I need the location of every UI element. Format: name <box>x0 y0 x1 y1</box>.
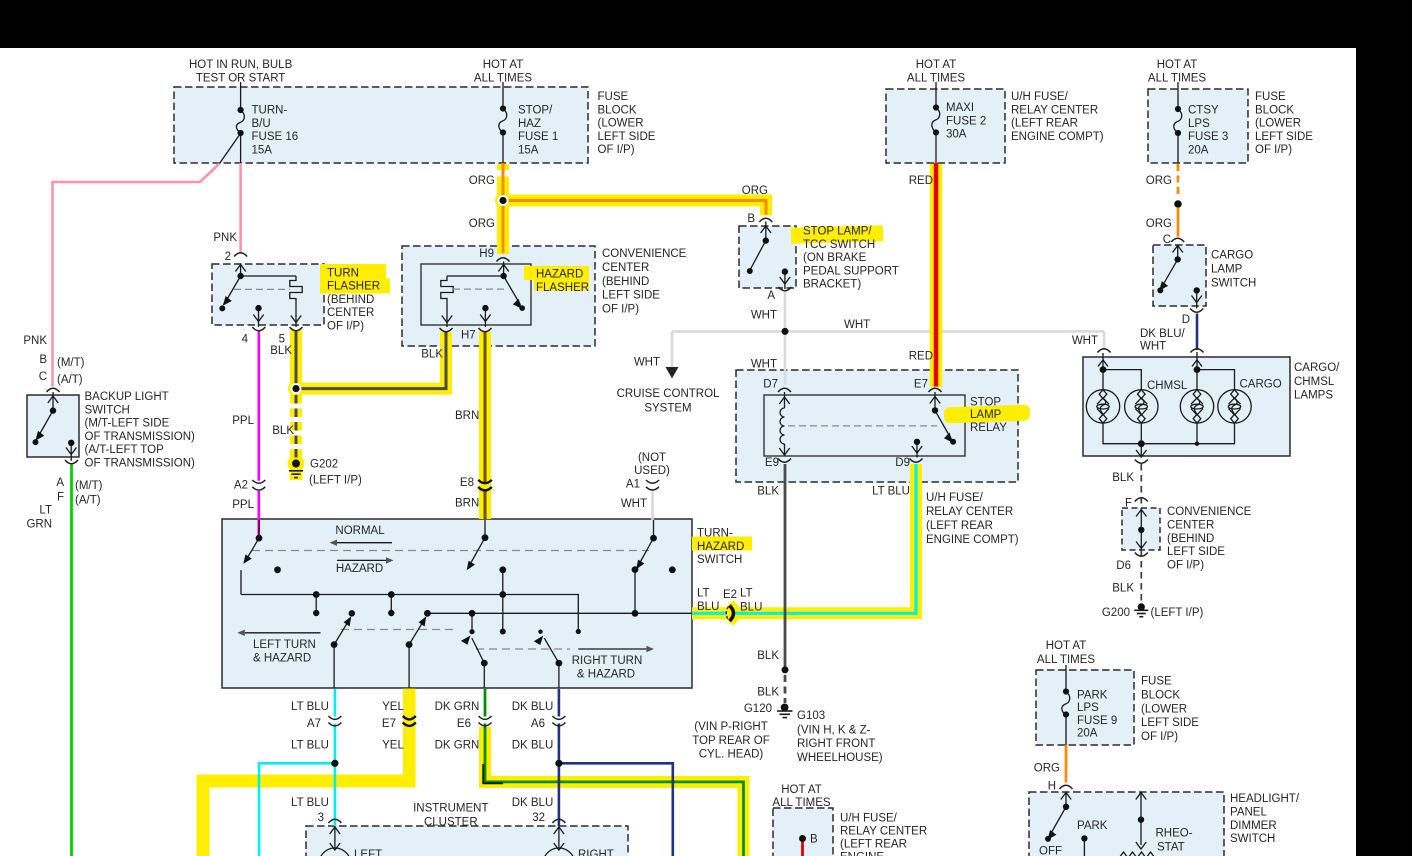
cargo/chmsl lamps internal wiring <box>1098 352 1235 457</box>
svg-text:20A: 20A <box>1188 145 1209 157</box>
svg-text:DK BLU: DK BLU <box>512 701 554 713</box>
wire WHT to chmsl lamps <box>1103 331 1106 350</box>
wire BLK dashed junction to G202 <box>295 395 298 459</box>
cargo lamp switch internals <box>1161 245 1202 309</box>
wire LT BLU relay D9 down and left to E2 <box>736 464 917 613</box>
svg-text:E2: E2 <box>723 589 737 601</box>
svg-text:ALL TIMES: ALL TIMES <box>1148 72 1206 84</box>
svg-text:PANEL: PANEL <box>1230 807 1267 819</box>
svg-text:PEDAL SUPPORT: PEDAL SUPPORT <box>803 265 899 277</box>
fuse terminal dots <box>238 107 244 113</box>
svg-text:(BEHIND: (BEHIND <box>327 294 374 306</box>
svg-text:CYL. HEAD): CYL. HEAD) <box>699 749 764 761</box>
svg-text:RIGHT: RIGHT <box>578 849 614 856</box>
svg-text:CLUSTER: CLUSTER <box>424 817 478 829</box>
cargo/chmsl lamps box <box>1083 357 1290 456</box>
wire BLK dashed to G120 <box>784 675 787 703</box>
svg-text:TCC SWITCH: TCC SWITCH <box>803 239 875 251</box>
wire LT BLU switch A7 down to cluster <box>334 689 337 717</box>
svg-text:D9: D9 <box>895 457 910 469</box>
svg-text:ALL TIMES: ALL TIMES <box>1037 654 1095 666</box>
bulb CARGO 2 <box>1218 390 1251 423</box>
G120 ground <box>781 704 789 712</box>
connector E7 arcs (YEL, bold) <box>403 716 416 719</box>
svg-text:(LOWER: (LOWER <box>1255 118 1301 130</box>
svg-text:E8: E8 <box>460 477 474 489</box>
svg-text:OFF: OFF <box>1039 845 1062 856</box>
svg-text:HEADLIGHT/: HEADLIGHT/ <box>1230 793 1300 805</box>
svg-text:CONVENIENCE: CONVENIENCE <box>1167 506 1252 518</box>
svg-text:OF I/P): OF I/P) <box>327 321 364 333</box>
connector 32 arc (cluster) <box>552 819 565 823</box>
svg-text:FUSE 3: FUSE 3 <box>1188 131 1228 143</box>
wire BLK dashed convenience center D6 to G200 <box>1140 550 1142 603</box>
svg-text:LEFT SIDE: LEFT SIDE <box>602 290 660 302</box>
svg-text:FUSE: FUSE <box>598 91 629 103</box>
stop lamp / TCC switch box <box>739 226 796 288</box>
svg-text:LEFT SIDE: LEFT SIDE <box>1167 546 1225 558</box>
svg-text:DK GRN: DK GRN <box>435 740 480 752</box>
connector H arc (dimmer switch) <box>1060 785 1073 789</box>
svg-text:U/H FUSE/: U/H FUSE/ <box>840 813 898 825</box>
cargo lamp switch box <box>1153 245 1206 306</box>
highlight LT BLU D9 to E2 to switch <box>692 464 916 613</box>
svg-text:BLU: BLU <box>740 601 762 613</box>
wire WHT to cruise control system <box>671 331 674 367</box>
svg-text:ORG: ORG <box>1034 763 1060 775</box>
svg-text:E6: E6 <box>457 718 471 730</box>
fuse PARK LPS FUSE 9 <box>1065 665 1067 692</box>
svg-text:WHT: WHT <box>751 309 777 321</box>
connector F arc <box>1135 498 1148 502</box>
text highlight HAZARD (turn-hazard switch) <box>692 537 752 551</box>
highlight ORG horizontal to stop/TCC B <box>497 201 766 216</box>
svg-text:ORG: ORG <box>742 185 768 197</box>
stop lamp relay internals <box>779 392 951 458</box>
svg-text:LPS: LPS <box>1188 118 1210 130</box>
svg-text:E7: E7 <box>382 718 396 730</box>
connector A2 arcs <box>252 480 265 483</box>
svg-text:A6: A6 <box>531 718 545 730</box>
svg-text:FUSE: FUSE <box>1255 91 1286 103</box>
svg-text:RIGHT FRONT: RIGHT FRONT <box>797 738 875 750</box>
svg-text:WHEELHOUSE): WHEELHOUSE) <box>797 752 883 764</box>
svg-text:A2: A2 <box>234 479 248 491</box>
text highlight LAMP (stop lamp relay) <box>944 405 1031 424</box>
svg-text:H7: H7 <box>461 330 476 342</box>
svg-text:CONVENIENCE: CONVENIENCE <box>602 248 687 260</box>
LT BLU arm <box>334 619 350 645</box>
svg-text:BRN: BRN <box>455 498 479 510</box>
svg-text:DK GRN: DK GRN <box>435 701 480 713</box>
instrument cluster internals <box>319 826 575 856</box>
svg-text:RELAY: RELAY <box>970 422 1007 434</box>
turn-hazard switch box <box>222 519 692 688</box>
svg-text:RELAY CENTER: RELAY CENTER <box>1011 104 1098 116</box>
svg-text:H9: H9 <box>479 248 494 260</box>
YELLOW HIGHLIGHT BANDS <box>203 164 936 856</box>
svg-text:YEL: YEL <box>382 740 404 752</box>
svg-text:BLK: BLK <box>272 425 294 437</box>
svg-text:TOP REAR OF: TOP REAR OF <box>692 735 770 747</box>
connector pin 5 arc <box>290 327 303 331</box>
svg-text:BLK: BLK <box>757 650 779 662</box>
wire DK BLU switch A6 down to cluster <box>558 689 561 717</box>
svg-text:(A/T): (A/T) <box>57 374 83 386</box>
svg-text:B: B <box>39 354 47 366</box>
connector C arc (cargo switch) <box>1171 238 1184 242</box>
connector E6 arcs <box>479 716 492 719</box>
node ORG dashed junction <box>1174 200 1182 208</box>
svg-text:PARK: PARK <box>1077 690 1108 702</box>
svg-text:BLK: BLK <box>1112 583 1134 595</box>
wire ORG park fuse9 to dimmer H <box>1065 745 1068 783</box>
svg-text:2: 2 <box>225 251 231 263</box>
svg-text:E9: E9 <box>765 457 779 469</box>
svg-text:TURN-: TURN- <box>252 105 288 117</box>
svg-text:D7: D7 <box>763 378 778 390</box>
svg-text:F: F <box>57 492 64 504</box>
wire PPL turn flasher 4 to A2 to switch <box>257 331 260 481</box>
svg-text:FLASHER: FLASHER <box>327 281 380 293</box>
svg-text:ORG: ORG <box>469 175 495 187</box>
svg-text:WHT: WHT <box>751 359 777 371</box>
svg-text:FUSE 9: FUSE 9 <box>1077 715 1117 727</box>
connector A/F arc (backup light switch) <box>65 460 78 464</box>
svg-text:BRN: BRN <box>455 410 479 422</box>
svg-text:B: B <box>747 213 755 225</box>
svg-text:ENGINE COMPT): ENGINE COMPT) <box>926 534 1019 546</box>
svg-text:OF TRANSMISSION): OF TRANSMISSION) <box>85 431 195 443</box>
svg-text:(M/T-LEFT SIDE: (M/T-LEFT SIDE <box>85 418 170 430</box>
G200 ground <box>1138 603 1145 610</box>
svg-text:(BEHIND: (BEHIND <box>1167 533 1214 545</box>
svg-text:HOT AT: HOT AT <box>483 59 523 71</box>
svg-text:G202: G202 <box>310 458 338 470</box>
svg-text:OF TRANSMISSION): OF TRANSMISSION) <box>85 458 195 470</box>
svg-text:HAZARD: HAZARD <box>336 563 383 575</box>
svg-text:LT BLU: LT BLU <box>291 701 329 713</box>
svg-text:PPL: PPL <box>232 415 254 427</box>
svg-text:3: 3 <box>318 812 324 824</box>
backup light switch internals <box>37 392 77 461</box>
headlight/panel dimmer switch internals <box>1050 792 1156 856</box>
top black bar <box>0 0 1412 48</box>
node DK BLU junction <box>555 760 562 767</box>
svg-text:G103: G103 <box>797 710 825 722</box>
bulb CHMSL 1 <box>1086 390 1119 423</box>
svg-text:E7: E7 <box>914 378 928 390</box>
svg-text:DIMMER: DIMMER <box>1230 820 1277 832</box>
connector A1 arcs <box>646 480 659 483</box>
turn flasher box <box>212 264 324 325</box>
connector B arc (stop/TCC) <box>759 218 772 222</box>
wire DK BLU branch right down <box>559 763 673 856</box>
node LT BLU junction <box>331 760 338 767</box>
svg-text:OF I/P): OF I/P) <box>598 144 635 156</box>
svg-text:20A: 20A <box>1077 728 1098 740</box>
stop lamp relay box <box>736 370 1018 482</box>
wire RED maxi fuse2 to relay E7 <box>934 163 939 387</box>
svg-text:LEFT SIDE: LEFT SIDE <box>1141 717 1199 729</box>
svg-text:STOP: STOP <box>970 396 1001 408</box>
svg-text:STOP/: STOP/ <box>518 105 553 117</box>
svg-text:TURN: TURN <box>327 267 359 279</box>
connector D9 arc <box>910 459 923 463</box>
connector arc DK BLU into lamps <box>1191 349 1204 353</box>
svg-text:(LEFT I/P): (LEFT I/P) <box>1151 607 1204 619</box>
text highlight HAZARD FLASHER <box>524 266 589 280</box>
connector E9 arc <box>778 459 791 463</box>
wire PNK fuse16 to backup light switch <box>53 164 220 387</box>
svg-text:DK BLU: DK BLU <box>512 797 554 809</box>
connector E7 arc (relay) <box>929 388 942 392</box>
right black bar <box>1356 0 1412 856</box>
svg-text:C: C <box>39 371 47 383</box>
svg-text:G120: G120 <box>744 703 772 715</box>
svg-text:RED: RED <box>909 351 933 363</box>
wire BLK relay E9 down <box>784 464 787 670</box>
node BLK junction <box>782 666 789 673</box>
PPL switch arm <box>258 520 260 538</box>
svg-text:YEL: YEL <box>382 701 404 713</box>
svg-text:LEFT SIDE: LEFT SIDE <box>598 131 656 143</box>
svg-text:CTSY: CTSY <box>1188 105 1219 117</box>
svg-text:30A: 30A <box>946 129 967 141</box>
bus1 wire <box>241 595 578 632</box>
bulb CARGO 1 <box>1180 390 1213 423</box>
bulb CHMSL 2 <box>1125 390 1158 423</box>
svg-text:WHT: WHT <box>621 498 647 510</box>
stop lamp/TCC switch internals <box>751 222 791 290</box>
svg-text:OF I/P): OF I/P) <box>1167 559 1204 571</box>
highlight DK GRN E6 down-right-down <box>485 727 744 856</box>
highlight YEL wire E7 down-left-down <box>403 689 416 788</box>
turn-hazard switch internals <box>241 520 692 688</box>
highlight RED maxi fuse to E7 <box>930 164 943 387</box>
headlight/panel dimmer switch box <box>1029 792 1224 856</box>
svg-text:SYSTEM: SYSTEM <box>644 403 691 415</box>
svg-text:ALL TIMES: ALL TIMES <box>474 72 532 84</box>
svg-text:WHT: WHT <box>844 319 870 331</box>
connector A6 arcs <box>552 716 565 719</box>
svg-text:5: 5 <box>279 334 285 346</box>
svg-text:(VIN H, K & Z-: (VIN H, K & Z- <box>797 724 871 736</box>
svg-text:BLK: BLK <box>1112 472 1134 484</box>
connector D7 arc <box>778 388 791 392</box>
svg-text:LT BLU: LT BLU <box>291 797 329 809</box>
svg-text:A7: A7 <box>307 718 321 730</box>
bus2 wire <box>427 612 692 614</box>
DK GRN arm <box>472 638 485 663</box>
BRN switch arm <box>484 520 486 538</box>
svg-text:CHMSL: CHMSL <box>1147 380 1188 392</box>
turn flasher internals <box>224 264 302 327</box>
svg-text:32: 32 <box>532 812 545 824</box>
convenience center (hazard flasher) box <box>402 246 595 346</box>
svg-text:LT BLU: LT BLU <box>291 740 329 752</box>
svg-text:(LEFT I/P): (LEFT I/P) <box>309 474 362 486</box>
svg-text:LT BLU: LT BLU <box>872 486 910 498</box>
connector A arc (stop/TCC) <box>778 287 791 291</box>
svg-text:HOT IN RUN, BULB: HOT IN RUN, BULB <box>189 59 293 71</box>
svg-text:FLASHER: FLASHER <box>536 282 589 294</box>
wire BLK hazard flasher H7 to junction <box>296 332 446 389</box>
connector arc lamps BLK exit <box>1135 460 1148 464</box>
svg-text:D6: D6 <box>1116 560 1131 572</box>
svg-text:STAT: STAT <box>1157 842 1185 854</box>
svg-text:GRN: GRN <box>26 519 52 531</box>
svg-text:HOT AT: HOT AT <box>916 59 956 71</box>
svg-text:(LOWER: (LOWER <box>1141 703 1187 715</box>
svg-text:(M/T): (M/T) <box>75 480 103 492</box>
svg-text:B/U: B/U <box>252 118 271 130</box>
svg-text:BACKUP LIGHT: BACKUP LIGHT <box>85 391 169 403</box>
svg-text:RELAY CENTER: RELAY CENTER <box>840 826 927 838</box>
wire ORG to cargo lamp switch C <box>1177 208 1180 237</box>
svg-text:ENGINE: ENGINE <box>840 852 884 856</box>
svg-text:FUSE 16: FUSE 16 <box>252 131 299 143</box>
wire WHT A1 stub (not used) <box>651 492 654 521</box>
highlight BLK turn flasher 5 to G202 <box>290 330 302 389</box>
svg-text:ORG: ORG <box>469 218 495 230</box>
svg-text:U/H FUSE/: U/H FUSE/ <box>1011 91 1069 103</box>
node BLK junction dot <box>291 383 302 394</box>
svg-text:WHT: WHT <box>634 357 660 369</box>
svg-text:BLK: BLK <box>757 486 779 498</box>
connector D6 arc <box>1135 553 1148 557</box>
black corner mark on DK GRN <box>483 764 503 783</box>
svg-text:CENTER: CENTER <box>1167 520 1214 532</box>
svg-text:FUSE: FUSE <box>1141 676 1172 688</box>
svg-text:BLOCK: BLOCK <box>598 104 637 116</box>
fuse TURN-B/U FUSE 16 <box>240 82 242 110</box>
connector pin 4 arc <box>252 327 265 331</box>
svg-text:DK BLU/: DK BLU/ <box>1140 328 1186 340</box>
wire RED U/H relay center B stub <box>801 840 804 856</box>
svg-text:LT: LT <box>39 505 52 517</box>
DK BLU arm <box>544 638 559 663</box>
text highlight TURN FLASHER <box>320 264 386 279</box>
svg-text:FUSE 2: FUSE 2 <box>946 115 986 127</box>
svg-text:A: A <box>56 477 64 489</box>
wire WHT horizontal run <box>672 330 1104 333</box>
wire LT BLU branch left down <box>259 763 335 856</box>
svg-text:BRACKET): BRACKET) <box>803 279 861 291</box>
wire ORG horizontal to stop/TCC switch B <box>503 201 766 215</box>
wire WHT stop/TCC A down to junction and D7 <box>784 292 787 385</box>
svg-text:CENTER: CENTER <box>327 307 374 319</box>
svg-text:& HAZARD: & HAZARD <box>577 668 635 680</box>
svg-text:A: A <box>767 290 775 302</box>
node ORG junction dot <box>498 195 509 206</box>
connector arc WHT into lamps <box>1098 349 1111 353</box>
svg-text:LT: LT <box>740 588 753 600</box>
wire DK GRN switch E6 down <box>484 689 487 717</box>
svg-text:LAMPS: LAMPS <box>1294 390 1333 402</box>
hazard flasher inner box <box>421 264 531 325</box>
svg-text:OF I/P): OF I/P) <box>602 304 639 316</box>
svg-text:LEFT TURN: LEFT TURN <box>253 639 316 651</box>
svg-text:LEFT: LEFT <box>354 849 382 856</box>
svg-text:STOP LAMP/: STOP LAMP/ <box>803 226 872 238</box>
svg-text:D: D <box>1182 314 1190 326</box>
svg-text:WHT: WHT <box>1072 335 1098 347</box>
connector D arc (cargo switch) <box>1190 309 1203 313</box>
svg-text:USED): USED) <box>634 465 670 477</box>
fuse block (PARK LPS fuse 9) box <box>1036 670 1134 745</box>
svg-text:OF I/P): OF I/P) <box>1255 144 1292 156</box>
svg-text:B: B <box>810 834 818 846</box>
svg-text:SWITCH: SWITCH <box>1211 278 1256 290</box>
wire DK BLU/WHT cargo switch D to lamps <box>1196 314 1199 351</box>
svg-text:PARK: PARK <box>1077 820 1108 832</box>
svg-text:4: 4 <box>242 334 249 346</box>
wire BLK turn flasher 5 to junction <box>295 330 298 389</box>
WHT switch arm <box>653 520 655 538</box>
connector A7 arcs <box>328 716 341 719</box>
svg-text:BLK: BLK <box>270 345 292 357</box>
connector H7 arcs <box>440 328 453 332</box>
svg-text:HAZARD: HAZARD <box>697 541 744 553</box>
svg-text:CARGO: CARGO <box>1240 379 1282 391</box>
wire ORG dashed CTSY fuse3 down <box>1177 164 1180 198</box>
svg-text:(VIN P-RIGHT: (VIN P-RIGHT <box>694 721 767 733</box>
wire LT GRN backup light switch down <box>70 464 73 856</box>
BLACK SYMBOLS <box>220 82 1182 745</box>
svg-text:RIGHT TURN: RIGHT TURN <box>572 655 643 667</box>
svg-text:(BEHIND: (BEHIND <box>602 276 649 288</box>
svg-text:HAZ: HAZ <box>518 118 541 130</box>
svg-text:WHT: WHT <box>1140 341 1166 353</box>
svg-text:CENTER: CENTER <box>602 262 649 274</box>
svg-text:15A: 15A <box>252 145 273 157</box>
svg-text:INSTRUMENT: INSTRUMENT <box>413 803 488 815</box>
svg-text:G200: G200 <box>1102 607 1130 619</box>
svg-text:ORG: ORG <box>1146 175 1172 187</box>
svg-text:PNK: PNK <box>23 335 47 347</box>
svg-text:HOT AT: HOT AT <box>1157 59 1197 71</box>
switch dots <box>256 535 263 542</box>
instrument cluster box <box>306 826 628 856</box>
svg-text:U/H FUSE/: U/H FUSE/ <box>926 492 984 504</box>
svg-text:OF I/P): OF I/P) <box>1141 731 1178 743</box>
svg-text:(A/T-LEFT TOP: (A/T-LEFT TOP <box>85 444 165 456</box>
svg-text:CARGO: CARGO <box>1211 250 1253 262</box>
fuse block (lower left side of I/P) box <box>174 87 588 163</box>
svg-text:(ON BRAKE: (ON BRAKE <box>803 252 867 264</box>
highlight diamond at E2 connector <box>720 600 745 625</box>
svg-text:LEFT SIDE: LEFT SIDE <box>1255 131 1313 143</box>
highlight ORG down to H9 <box>497 201 509 255</box>
svg-text:LT: LT <box>697 588 710 600</box>
svg-text:(LEFT REAR: (LEFT REAR <box>926 520 993 532</box>
wire RED over WHT crossing <box>930 324 943 339</box>
svg-text:SWITCH: SWITCH <box>697 554 742 566</box>
text highlight STOP LAMP/ (TCC switch) <box>791 225 883 243</box>
svg-text:SWITCH: SWITCH <box>1230 833 1275 845</box>
highlight BRN H7 to E8 to switch <box>479 332 491 519</box>
svg-text:BLU: BLU <box>697 601 719 613</box>
svg-text:F: F <box>1125 497 1132 509</box>
svg-text:RHEO-: RHEO- <box>1156 828 1193 840</box>
fuse CTSY LPS FUSE 3 <box>1177 82 1179 109</box>
svg-text:A1: A1 <box>626 478 640 490</box>
connector E2 arcs <box>730 606 734 622</box>
svg-text:BLOCK: BLOCK <box>1141 690 1180 702</box>
convenience center small box <box>1122 508 1160 550</box>
svg-text:BLK: BLK <box>757 686 779 698</box>
